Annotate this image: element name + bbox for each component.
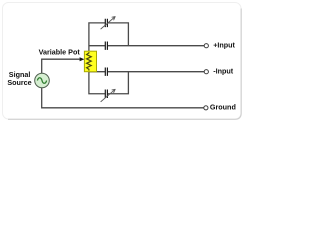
svg-text:-Input: -Input [213,66,234,75]
svg-text:Ground: Ground [210,103,236,112]
svg-text:Source: Source [7,78,31,87]
svg-text:Variable Pot: Variable Pot [39,47,81,56]
svg-text:+Input: +Input [213,40,235,49]
